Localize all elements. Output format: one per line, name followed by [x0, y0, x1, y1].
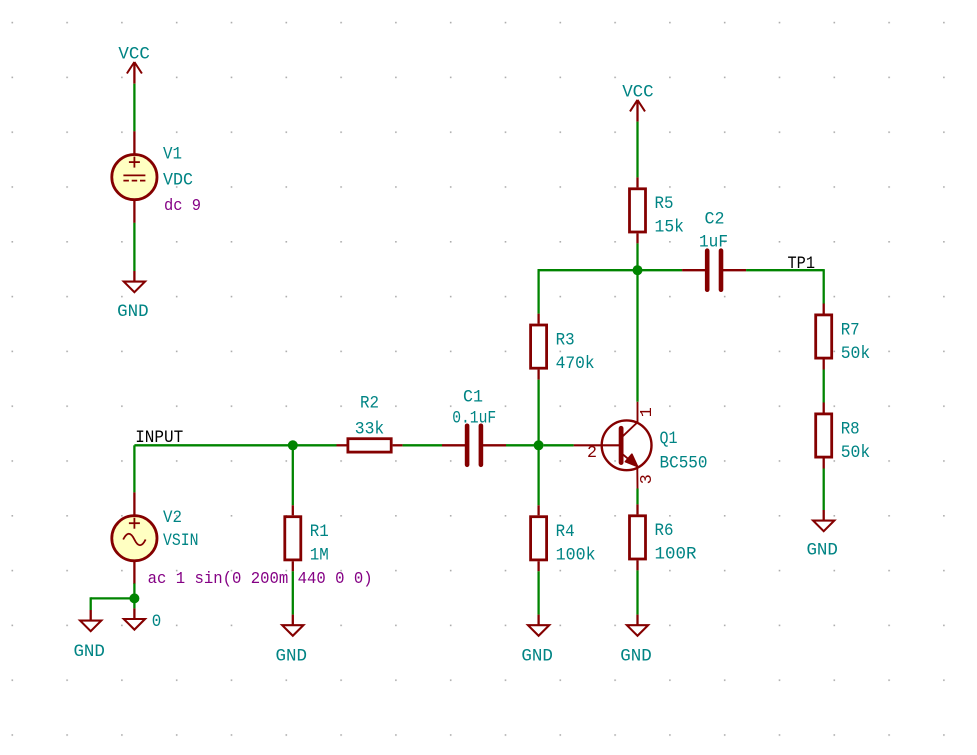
- wire R4 to ground: [537, 571, 539, 614]
- svg-text:GND: GND: [806, 541, 838, 561]
- svg-text:ac 1 sin(0 200m 440 0 0): ac 1 sin(0 200m 440 0 0): [148, 570, 373, 588]
- wire Q1 emitter to R6: [636, 489, 638, 505]
- pin number 3 of Q1: [638, 474, 657, 484]
- wire R6 to ground: [636, 570, 638, 614]
- resistor R2: [337, 394, 403, 453]
- svg-text:VSIN: VSIN: [163, 531, 199, 551]
- svg-text:2: 2: [587, 444, 597, 463]
- svg-text:GND: GND: [276, 647, 308, 667]
- svg-text:R1: R1: [310, 522, 329, 542]
- wire R2 to C1: [403, 444, 442, 446]
- wire junction to C2: [638, 269, 683, 271]
- svg-text:GND: GND: [620, 647, 652, 667]
- svg-text:Q1: Q1: [660, 429, 678, 449]
- wire C2 to TP1 corner: [746, 269, 824, 304]
- svg-text:VCC: VCC: [622, 83, 654, 103]
- svg-text:100k: 100k: [556, 546, 596, 566]
- svg-text:15k: 15k: [655, 218, 685, 238]
- svg-text:C2: C2: [705, 210, 725, 230]
- wire R5 to collector rail: [636, 243, 638, 270]
- resistor R6: [630, 504, 697, 570]
- capacitor C1: [442, 388, 506, 465]
- wire junction down to Q1 collector: [636, 270, 638, 402]
- wire INPUT horizontal: [134, 444, 336, 446]
- wire INPUT vertical to V2: [133, 445, 135, 492]
- capacitor C2: [682, 210, 746, 290]
- svg-text:TP1: TP1: [788, 254, 816, 274]
- svg-text:0.1uF: 0.1uF: [452, 409, 496, 429]
- svg-text:1M: 1M: [310, 546, 329, 566]
- value ac 1 sin(0 200m 440 0 0) of V2: [148, 570, 373, 588]
- svg-text:V2: V2: [163, 508, 182, 528]
- ground symbol below R8: [806, 510, 838, 561]
- junction at V2 ground node: [129, 593, 139, 603]
- svg-text:GND: GND: [521, 647, 553, 667]
- wire V1 pin 2 to GND: [133, 223, 135, 271]
- svg-text:1: 1: [638, 407, 657, 417]
- svg-text:BC550: BC550: [660, 453, 708, 473]
- value dc 9 of V1: [164, 197, 201, 215]
- wire R3 up to top rail corner: [538, 270, 638, 313]
- svg-text:3: 3: [638, 474, 657, 484]
- wire R8 to ground: [823, 469, 825, 511]
- transistor Q1 BC550: [574, 402, 708, 489]
- voltage source V1: [112, 131, 193, 223]
- wire R1 to ground: [292, 571, 294, 614]
- wire C1 to base node junction: [506, 444, 539, 446]
- pin number 2 of Q1: [587, 444, 597, 463]
- ground symbol GND left of 0 net: [73, 610, 105, 662]
- wire junction down to R1: [292, 445, 294, 505]
- svg-text:dc 9: dc 9: [164, 197, 201, 215]
- svg-text:GND: GND: [117, 302, 149, 322]
- svg-text:V1: V1: [163, 144, 182, 164]
- wire VCC to V1 pin 1: [133, 84, 135, 132]
- svg-text:470k: 470k: [556, 354, 595, 374]
- power symbol VCC (left): [118, 45, 149, 84]
- local label TP1: [788, 254, 816, 274]
- svg-text:R4: R4: [556, 522, 575, 542]
- svg-text:50k: 50k: [841, 344, 871, 364]
- resistor R1: [285, 505, 329, 571]
- resistor R4: [531, 505, 596, 571]
- resistor R5: [630, 177, 685, 243]
- svg-text:R6: R6: [655, 521, 674, 541]
- junction at Q1 base divider node: [534, 440, 544, 450]
- svg-text:0: 0: [152, 612, 162, 632]
- svg-text:GND: GND: [73, 642, 105, 662]
- wire V2 pin 2 to junction: [133, 583, 135, 598]
- svg-text:100R: 100R: [655, 545, 697, 565]
- svg-text:1uF: 1uF: [699, 233, 728, 253]
- voltage source V2: [112, 492, 199, 584]
- svg-text:VDC: VDC: [163, 170, 193, 190]
- ground symbol 0 net: [124, 608, 162, 632]
- wire base node down to R4: [537, 445, 539, 505]
- ground symbol below V1: [117, 271, 149, 322]
- svg-text:VCC: VCC: [118, 45, 149, 65]
- svg-text:C1: C1: [463, 388, 483, 408]
- wire junction to 0 net ground: [133, 598, 135, 608]
- svg-text:R7: R7: [841, 320, 860, 340]
- svg-text:R3: R3: [556, 330, 575, 350]
- svg-text:33k: 33k: [355, 420, 385, 440]
- svg-text:R5: R5: [655, 194, 674, 214]
- resistor R8: [816, 403, 871, 469]
- junction at R1 top node: [288, 440, 298, 450]
- power symbol VCC (right): [622, 83, 654, 122]
- ground symbol below R4: [521, 615, 553, 667]
- junction at R5 collector node: [633, 265, 643, 275]
- resistor R3: [531, 314, 595, 380]
- wire base node to Q1 base: [544, 444, 574, 446]
- wire VCC to R5: [636, 122, 638, 178]
- wire junction to left ground: [91, 597, 136, 610]
- local label INPUT: [135, 428, 183, 448]
- svg-text:R2: R2: [360, 394, 379, 414]
- pin number 1 of Q1: [638, 407, 657, 417]
- ground symbol below R1: [276, 615, 308, 667]
- wire base node up to R3: [537, 380, 539, 446]
- svg-text:50k: 50k: [841, 443, 871, 463]
- ground symbol below R6: [620, 615, 652, 667]
- resistor R7: [816, 304, 871, 370]
- svg-text:R8: R8: [841, 419, 860, 439]
- wire R7 to R8: [823, 370, 825, 403]
